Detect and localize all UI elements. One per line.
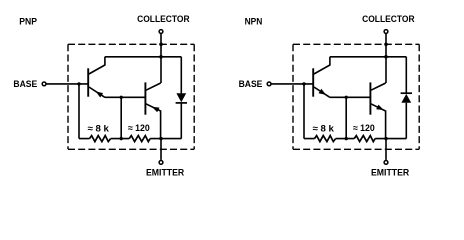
junction emitter rail (left) (159, 137, 162, 140)
svg-text:≈ 8 k: ≈ 8 k (313, 123, 335, 133)
wire top collector rail (left) (105, 56, 181, 58)
transistor Q2 (left PNP output) (145, 82, 160, 138)
wire resistor R4 branch (right) (345, 97, 347, 138)
terminal COLLECTOR (left) (159, 30, 163, 34)
junction emitter rail (right) (384, 137, 387, 140)
wire resistor R2 branch (left) (120, 97, 122, 138)
transistor Q4 (right NPN output) (370, 82, 385, 138)
resistor R4 ~120 (right) (354, 136, 375, 142)
transistor Q1 (left PNP driver) (88, 57, 105, 98)
wire collector stem (right) (385, 34, 387, 83)
package outline (right dashed box) (293, 44, 419, 149)
svg-text:PNP: PNP (19, 16, 37, 27)
svg-text:NPN: NPN (245, 16, 263, 27)
wire collector stem (left) (160, 34, 162, 83)
svg-text:COLLECTOR: COLLECTOR (362, 14, 415, 25)
resistor R2 ~120 (left) (129, 136, 150, 142)
wire diode branch (right) (405, 57, 407, 139)
wire Q1-Q2 base link (left) (105, 96, 145, 98)
resistor R3 ~8k (right) (315, 136, 336, 142)
wire emitter stem (right) (385, 139, 387, 160)
svg-text:≈ 120: ≈ 120 (353, 123, 375, 133)
junction collector-case (right) (384, 43, 388, 47)
wire bottom emitter rail (left) (79, 138, 181, 140)
diode D1 (left, cathode down) (176, 93, 187, 103)
svg-text:≈ 8 k: ≈ 8 k (88, 123, 110, 133)
transistor Q3 (right NPN driver) (313, 57, 330, 98)
junction R3/R4 rail (right) (345, 137, 348, 140)
wire base (left) (46, 83, 87, 85)
wire base (right) (271, 83, 312, 85)
package outline (left dashed box) (68, 44, 194, 149)
resistor R1 ~8k (left) (90, 136, 111, 142)
terminal BASE (left) (42, 82, 46, 86)
wire diode branch (left) (180, 57, 182, 139)
junction base/R3 (right) (302, 82, 305, 85)
svg-text:BASE: BASE (239, 79, 263, 90)
wire bottom emitter rail (right) (304, 138, 406, 140)
wire top collector rail (right) (330, 56, 406, 58)
terminal EMITTER (right) (384, 161, 388, 165)
wire resistor R3 branch (right) (303, 84, 305, 139)
junction R1/R2 rail (left) (120, 137, 123, 140)
junction collector rail (left) (159, 55, 163, 59)
junction collector rail (right) (384, 55, 388, 59)
svg-text:BASE: BASE (13, 79, 37, 90)
wire resistor R1 branch (left) (78, 84, 80, 139)
wire emitter stem (left) (160, 139, 162, 160)
junction collector-case (left) (159, 43, 163, 47)
junction Q4 base/R4 (right) (345, 96, 348, 99)
diode D2 (right, cathode up) (401, 93, 412, 103)
svg-text:EMITTER: EMITTER (371, 167, 409, 178)
svg-text:COLLECTOR: COLLECTOR (137, 14, 190, 25)
svg-text:EMITTER: EMITTER (146, 167, 184, 178)
svg-text:≈ 120: ≈ 120 (128, 123, 150, 133)
terminal EMITTER (left) (159, 161, 163, 165)
wire Q3-Q4 base link (right) (330, 96, 370, 98)
terminal COLLECTOR (right) (384, 30, 388, 34)
terminal BASE (right) (267, 82, 271, 86)
junction base/R1 (left) (77, 82, 80, 85)
junction Q2 base/R2 (left) (120, 96, 123, 99)
